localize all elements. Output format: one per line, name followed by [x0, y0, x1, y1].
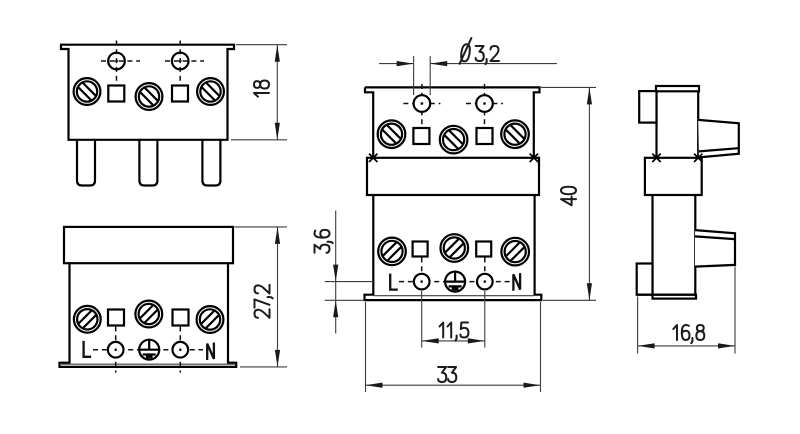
- centerline B1 vertical dashed: [115, 327, 117, 373]
- dimension 27,2 extension lines: [235, 227, 288, 367]
- mid band: [367, 158, 539, 195]
- x mark right: [530, 154, 538, 162]
- dimension text 27,2: [255, 285, 273, 318]
- side lower body sides: [653, 195, 696, 295]
- side upper left protrusion: [639, 91, 656, 123]
- label L: [84, 342, 90, 357]
- dimension 27,2 line: [277, 227, 279, 367]
- dimension 18 arrows: [275, 45, 280, 140]
- screw D2: [441, 234, 469, 262]
- section lower body and base outline: [365, 195, 542, 300]
- dimension 3,6 line: [335, 211, 337, 334]
- terminal circle L: [108, 342, 124, 358]
- dimension 11,5 arrows: [422, 338, 485, 343]
- centerline hole 1 dashed cross: [101, 41, 140, 86]
- screw A1: [74, 78, 101, 105]
- screw D1: [378, 238, 406, 266]
- terminal circle N: [173, 342, 189, 358]
- dimension diameter 3,2 arrows: [397, 61, 448, 66]
- screw C2: [440, 126, 468, 154]
- dimension 16,8 arrows: [638, 343, 735, 348]
- dimension diameter 3,2 extension lines: [414, 56, 431, 95]
- wire hole 1: [108, 53, 125, 70]
- section base top thin line: [374, 295, 534, 297]
- dimension text 33: [438, 367, 456, 382]
- square opening C1: [413, 128, 429, 144]
- square opening B1: [108, 310, 124, 326]
- top view body outline: [61, 45, 234, 140]
- dimension 3,6 extension lines: [325, 282, 373, 301]
- dimension 3,6 arrows: [333, 265, 338, 318]
- section upper body outline: [365, 87, 540, 157]
- screw A3: [197, 78, 224, 105]
- x mark side left: [652, 154, 660, 162]
- pin 1: [77, 139, 95, 186]
- x mark left: [369, 154, 377, 162]
- dimension text 40: [561, 187, 576, 206]
- dimension text 3,6: [315, 230, 333, 253]
- dimension text 16,8: [673, 325, 704, 343]
- dimension text 18: [254, 81, 269, 97]
- front view cap: [64, 227, 233, 263]
- terminal row dashed line: [93, 349, 203, 351]
- centerline hole 2 dashed cross: [165, 41, 204, 86]
- dimension text diameter 3,2: [460, 38, 499, 64]
- section wire hole 2: [476, 95, 493, 112]
- screw C3: [501, 120, 529, 148]
- dimension 40 line: [588, 87, 590, 300]
- side lower clamp inner line: [695, 236, 735, 239]
- earth terminal circle: [138, 340, 160, 360]
- dimension 33 extension lines: [366, 302, 541, 392]
- section wire hole 1 dashed cross: [403, 84, 440, 128]
- dimension 11,5 extension lines: [422, 291, 485, 348]
- square opening C2: [477, 128, 493, 144]
- screw B3: [197, 306, 224, 333]
- square opening B2: [173, 310, 189, 326]
- dimension 40 arrows: [587, 87, 592, 300]
- front base top thin line: [61, 363, 235, 365]
- side band: [645, 158, 702, 195]
- x mark side right: [694, 154, 702, 162]
- screw D3: [501, 238, 529, 266]
- pin 3: [202, 139, 220, 186]
- square opening D2: [476, 242, 491, 257]
- dimension 18 line: [276, 45, 278, 140]
- screw B2: [135, 301, 162, 328]
- pin 2: [139, 139, 157, 186]
- dimension 16,8 extension lines: [638, 267, 735, 354]
- section wire hole 1: [414, 95, 431, 112]
- dimension 33 line: [366, 384, 541, 386]
- terminal row dashed line mid: [399, 281, 510, 283]
- side upper body sides: [657, 91, 699, 158]
- dimension text 11,5: [440, 323, 469, 341]
- label N: [207, 344, 214, 359]
- centerline B2 vertical dashed: [179, 327, 181, 373]
- screw B1: [74, 306, 101, 333]
- centerline D1 vertical dashed: [421, 258, 423, 292]
- earth terminal circle mid: [444, 272, 466, 292]
- terminal circle L mid: [414, 274, 430, 290]
- section wire hole 2 dashed cross: [466, 84, 503, 128]
- dimension 11,5 line: [422, 340, 485, 342]
- screw C1: [378, 120, 406, 148]
- centerline D2 vertical dashed: [484, 258, 486, 292]
- square opening A2: [172, 86, 188, 102]
- terminal circle N mid: [477, 274, 493, 290]
- screw A2: [136, 83, 163, 110]
- dimension 18 extension lines: [231, 45, 287, 140]
- square opening D1: [413, 242, 428, 257]
- side lower left protrusion: [637, 264, 653, 295]
- side upper clamp inner line: [699, 148, 739, 151]
- label L mid: [390, 275, 396, 290]
- dimension diameter 3,2 line: [379, 63, 557, 65]
- side foot: [653, 295, 697, 299]
- label N mid: [513, 274, 520, 289]
- dimension 33 arrows: [366, 383, 541, 388]
- square opening A1: [108, 86, 124, 102]
- wire hole 2: [172, 53, 189, 70]
- front view body and base outline: [60, 263, 237, 367]
- dimension 40 extension lines: [541, 87, 596, 300]
- dimension 27,2 arrows: [275, 227, 280, 367]
- side upper clamp trapezoid: [698, 120, 739, 157]
- side lower clamp trapezoid: [695, 230, 735, 267]
- side base line: [637, 294, 696, 296]
- dimension 16,8 line: [638, 345, 735, 347]
- side cap: [656, 86, 699, 91]
